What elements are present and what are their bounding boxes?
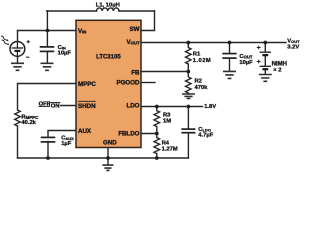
svg-text:GND: GND [103,139,117,146]
svg-text:40.2k: 40.2k [21,120,36,126]
svg-text:LDO: LDO [126,102,139,109]
svg-text:10µF: 10µF [239,60,253,66]
svg-text:1.8V: 1.8V [204,104,216,110]
svg-text:1.27M: 1.27M [162,147,178,153]
svg-text:10µF: 10µF [58,51,72,57]
svg-text:1M: 1M [163,119,171,125]
svg-text:1.02M: 1.02M [193,58,211,64]
svg-text:VOUT: VOUT [287,39,300,45]
svg-text:MPPC: MPPC [78,81,96,88]
svg-text:OFF: OFF [39,102,51,108]
svg-text:FB: FB [131,69,140,76]
svg-text:PGOOD: PGOOD [116,80,140,87]
svg-text:3.2V: 3.2V [287,45,299,51]
svg-text:R4: R4 [162,141,170,147]
svg-text:× 2: × 2 [273,67,281,73]
svg-text:AUX: AUX [78,128,92,135]
svg-text:R2: R2 [195,79,202,85]
svg-text:470k: 470k [195,85,209,91]
svg-text:1µF: 1µF [61,141,72,147]
svg-text:LTC3105: LTC3105 [96,54,121,60]
svg-text:ON: ON [51,104,60,110]
svg-text:COUT: COUT [239,54,252,60]
svg-text:L1, 10µH: L1, 10µH [96,2,120,8]
svg-text:SHDN: SHDN [78,103,96,110]
svg-text:FBLDO: FBLDO [118,131,139,138]
svg-text:VIN: VIN [78,28,86,35]
svg-text:SW: SW [130,26,140,33]
svg-text:R1: R1 [193,52,201,58]
svg-text:VOUT: VOUT [127,39,140,46]
svg-text:4.7µF: 4.7µF [198,133,213,139]
